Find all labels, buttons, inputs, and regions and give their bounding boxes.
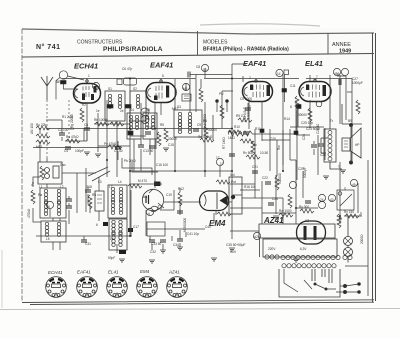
svg-text:5000pF: 5000pF	[303, 167, 307, 178]
svg-text:Rb 10000: Rb 10000	[94, 118, 108, 122]
svg-text:20000: 20000	[168, 137, 177, 141]
svg-text:AZ41: AZ41	[168, 270, 180, 275]
svg-text:C28: C28	[302, 134, 306, 140]
svg-text:30000: 30000	[298, 113, 307, 117]
svg-text:S5: S5	[146, 108, 150, 112]
svg-text:C3: C3	[70, 127, 74, 131]
svg-text:7: 7	[316, 75, 318, 79]
svg-text:49: 49	[352, 183, 356, 187]
svg-text:PHILIPS/RADIOLA: PHILIPS/RADIOLA	[103, 46, 163, 53]
svg-text:BF491A (Philips) - RA940A (Rad: BF491A (Philips) - RA940A (Radiola)	[203, 47, 289, 53]
svg-text:C15: C15	[168, 143, 174, 147]
svg-text:B9: B9	[348, 119, 352, 123]
svg-text:L2: L2	[60, 185, 64, 189]
svg-text:C21: C21	[252, 165, 258, 169]
svg-text:M2: M2	[183, 87, 188, 91]
svg-text:R14: R14	[284, 117, 290, 121]
svg-text:Rc 10000Ω: Rc 10000Ω	[203, 113, 207, 130]
svg-text:L3: L3	[98, 180, 102, 184]
svg-text:C35 50+50µF: C35 50+50µF	[226, 243, 246, 247]
svg-text:A20: A20	[254, 235, 260, 239]
svg-text:Pn: Pn	[31, 182, 35, 186]
svg-text:1MΩ: 1MΩ	[228, 136, 235, 140]
svg-text:EL41: EL41	[305, 59, 323, 68]
svg-text:1000pF: 1000pF	[352, 81, 363, 85]
svg-text:ECH41: ECH41	[48, 270, 63, 275]
svg-text:Pe 47kΩ: Pe 47kΩ	[104, 142, 117, 146]
svg-text:1949: 1949	[339, 49, 351, 55]
svg-text:10-50: 10-50	[260, 151, 268, 155]
svg-text:C11: C11	[290, 84, 296, 88]
svg-text:Pb 2MΩ: Pb 2MΩ	[124, 159, 136, 163]
svg-text:R1 2,2k: R1 2,2k	[62, 115, 73, 119]
svg-text:C32: C32	[150, 250, 156, 254]
svg-text:R20: R20	[230, 250, 236, 254]
svg-text:30000: 30000	[208, 128, 217, 132]
svg-text:M 300000: M 300000	[183, 218, 187, 232]
svg-text:220V: 220V	[268, 247, 276, 251]
svg-text:S: S	[344, 187, 346, 191]
svg-text:C4: C4	[64, 149, 68, 153]
svg-text:L7: L7	[109, 185, 113, 189]
svg-text:MF2: MF2	[172, 107, 179, 111]
svg-text:C12: C12	[147, 126, 153, 130]
svg-text:5: 5	[162, 74, 164, 78]
svg-text:42: 42	[330, 198, 334, 202]
svg-text:6,3V: 6,3V	[300, 247, 307, 251]
svg-text:Rz: Rz	[359, 212, 363, 216]
svg-text:6: 6	[48, 205, 50, 209]
svg-text:C34: C34	[173, 243, 179, 247]
svg-text:AZ: AZ	[305, 219, 309, 223]
svg-text:Rw: Rw	[277, 145, 281, 150]
svg-text:Rv: Rv	[253, 143, 257, 147]
svg-text:Ro 22k: Ro 22k	[36, 123, 47, 127]
svg-text:C6 47p: C6 47p	[122, 67, 133, 71]
svg-text:24: 24	[320, 198, 324, 202]
svg-text:S4: S4	[130, 108, 134, 112]
svg-text:C31: C31	[85, 242, 91, 246]
svg-text:L6: L6	[110, 237, 114, 241]
svg-text:8: 8	[290, 105, 292, 109]
svg-text:EL41: EL41	[108, 270, 119, 275]
svg-text:L5: L5	[46, 237, 50, 241]
svg-text:R7 1MΩ: R7 1MΩ	[222, 137, 226, 149]
svg-text:PU: PU	[219, 92, 224, 96]
svg-text:7: 7	[249, 105, 251, 109]
svg-text:R12: R12	[178, 187, 184, 191]
svg-text:AB: AB	[143, 195, 147, 199]
svg-text:R2: R2	[82, 103, 86, 107]
svg-text:Rv 50k: Rv 50k	[243, 151, 253, 155]
svg-text:BE: BE	[56, 80, 60, 84]
svg-text:C9 5000: C9 5000	[240, 97, 252, 101]
svg-text:EAF41: EAF41	[77, 270, 91, 275]
svg-text:R10: R10	[234, 125, 240, 129]
svg-text:1e: 1e	[96, 109, 100, 113]
svg-text:EM4: EM4	[209, 219, 226, 228]
svg-text:EAF41: EAF41	[243, 59, 266, 68]
svg-text:EM4: EM4	[140, 269, 150, 274]
svg-text:Ra: Ra	[38, 193, 42, 197]
svg-text:100pF: 100pF	[75, 149, 84, 153]
svg-text:C20: C20	[270, 137, 276, 141]
svg-text:M 470: M 470	[138, 179, 147, 183]
svg-text:S1: S1	[108, 87, 112, 91]
svg-text:Ra 47kΩ: Ra 47kΩ	[66, 135, 79, 139]
svg-text:C8: C8	[196, 65, 200, 69]
svg-text:14: 14	[277, 72, 281, 76]
svg-text:C24: C24	[272, 197, 278, 201]
svg-text:ANNEE: ANNEE	[332, 42, 351, 48]
svg-text:C19: C19	[166, 193, 172, 197]
svg-text:C26 10: C26 10	[316, 123, 320, 134]
svg-text:470kΩ: 470kΩ	[27, 208, 31, 218]
svg-text:C2 100: C2 100	[58, 128, 69, 132]
svg-text:C10 0,5µF: C10 0,5µF	[243, 107, 247, 122]
svg-text:Rd 100kΩ: Rd 100kΩ	[198, 135, 213, 139]
svg-text:C18: C18	[86, 185, 92, 189]
svg-text:10: 10	[94, 86, 98, 90]
svg-text:C40: C40	[205, 225, 211, 229]
svg-text:Ry 150: Ry 150	[344, 210, 354, 214]
svg-text:AN 100: AN 100	[30, 123, 34, 134]
svg-text:C7 40: C7 40	[114, 149, 123, 153]
svg-text:C13 50: C13 50	[143, 149, 154, 153]
svg-text:R16 1M: R16 1M	[244, 185, 256, 189]
svg-text:C26: C26	[320, 153, 326, 157]
svg-text:Vol: Vol	[230, 173, 235, 177]
svg-text:C5: C5	[84, 123, 88, 127]
svg-text:MF1: MF1	[36, 145, 43, 149]
svg-text:C9: C9	[197, 123, 201, 127]
svg-text:Osc: Osc	[60, 163, 66, 167]
svg-text:C41 10p: C41 10p	[187, 232, 199, 236]
svg-text:17: 17	[220, 162, 224, 166]
svg-text:ECH41: ECH41	[74, 62, 98, 71]
svg-text:C17: C17	[133, 225, 139, 229]
svg-text:T: T	[338, 165, 340, 169]
svg-text:C16 100: C16 100	[156, 163, 168, 167]
svg-text:C22: C22	[262, 176, 268, 180]
svg-text:HP: HP	[355, 143, 359, 147]
svg-text:2e: 2e	[120, 109, 124, 113]
svg-text:EAF41: EAF41	[150, 61, 173, 70]
svg-text:MODELES: MODELES	[203, 40, 228, 46]
svg-text:R8: R8	[92, 193, 96, 197]
svg-text:456: 456	[334, 72, 340, 76]
svg-text:Pot: Pot	[231, 180, 236, 184]
svg-text:L4: L4	[118, 180, 122, 184]
svg-text:Rw 1000: Rw 1000	[279, 209, 292, 213]
svg-text:17: 17	[216, 156, 220, 160]
svg-text:S2: S2	[133, 87, 137, 91]
svg-text:2000Ω: 2000Ω	[360, 234, 364, 244]
svg-text:C33 50: C33 50	[151, 242, 162, 246]
svg-text:500000: 500000	[278, 173, 282, 184]
svg-text:R5: R5	[160, 123, 164, 127]
svg-text:L1: L1	[39, 185, 43, 189]
svg-text:C25 10p: C25 10p	[301, 121, 313, 125]
svg-text:1: 1	[88, 74, 90, 78]
svg-text:2: 2	[249, 76, 251, 80]
svg-text:50pF: 50pF	[108, 256, 115, 260]
svg-text:CONSTRUCTEURS: CONSTRUCTEURS	[77, 40, 123, 46]
svg-text:R11: R11	[255, 127, 261, 131]
svg-text:6: 6	[96, 223, 98, 227]
svg-text:16: 16	[203, 68, 207, 72]
svg-text:Rx 300: Rx 300	[299, 205, 309, 209]
svg-text:Rt: Rt	[339, 217, 342, 221]
svg-text:N° 741: N° 741	[36, 43, 60, 51]
